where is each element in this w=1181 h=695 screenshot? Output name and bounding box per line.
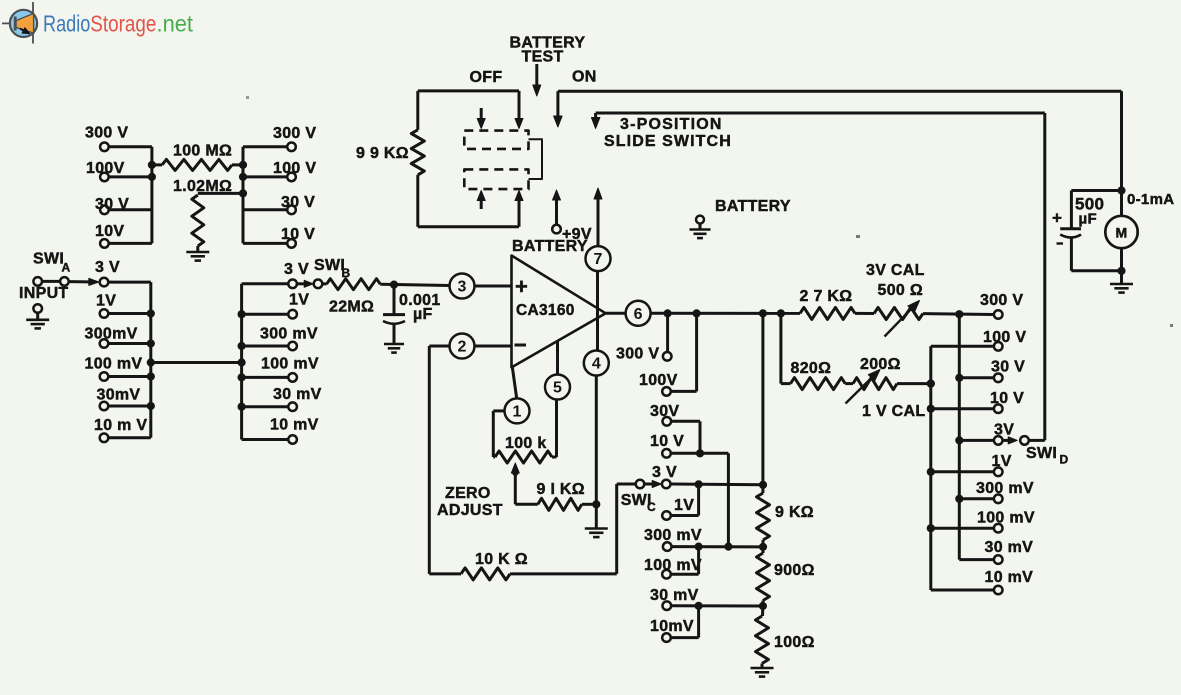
svg-text:10 mV: 10 mV (985, 569, 1034, 586)
svg-text:3V CAL: 3V CAL (866, 262, 925, 279)
svg-text:+: + (1052, 209, 1062, 228)
svg-text:100 mV: 100 mV (977, 510, 1035, 527)
svg-text:7: 7 (594, 251, 603, 268)
svg-text:TEST: TEST (522, 49, 564, 66)
svg-text:900Ω: 900Ω (774, 562, 815, 579)
svg-text:100V: 100V (86, 160, 125, 177)
svg-text:300 mV: 300 mV (260, 326, 318, 343)
svg-text:CA3160: CA3160 (516, 302, 575, 319)
svg-text:3 V: 3 V (95, 259, 120, 276)
svg-text:4: 4 (592, 356, 601, 373)
svg-text:100V: 100V (639, 372, 678, 389)
svg-text:ADJUST: ADJUST (437, 502, 503, 519)
svg-text:300 V: 300 V (85, 125, 128, 142)
svg-text:6: 6 (634, 306, 643, 323)
svg-text:9 I KΩ: 9 I KΩ (537, 481, 585, 498)
svg-text:300 mV: 300 mV (976, 480, 1034, 497)
svg-text:µF: µF (413, 306, 433, 323)
svg-text:1: 1 (513, 403, 522, 420)
svg-text:10mV: 10mV (650, 618, 694, 635)
svg-text:10 V: 10 V (990, 390, 1024, 407)
svg-text:0-1mA: 0-1mA (1127, 191, 1174, 208)
svg-text:30 mV: 30 mV (650, 587, 699, 604)
svg-text:30 mV: 30 mV (273, 386, 322, 403)
svg-text:300mV: 300mV (85, 326, 138, 343)
svg-text:1V: 1V (96, 293, 116, 310)
svg-text:1 V CAL: 1 V CAL (862, 403, 925, 420)
svg-text:100 V: 100 V (983, 329, 1026, 346)
svg-text:100 mV: 100 mV (261, 356, 319, 373)
svg-text:10 V: 10 V (281, 226, 315, 243)
svg-text:10 mV: 10 mV (270, 417, 319, 434)
svg-text:100 V: 100 V (273, 160, 316, 177)
svg-text:D: D (1060, 453, 1069, 467)
svg-text:100 mV: 100 mV (644, 557, 702, 574)
svg-text:2: 2 (458, 339, 467, 356)
svg-text:µF: µF (1079, 211, 1097, 228)
svg-text:SWI: SWI (314, 257, 345, 274)
svg-text:ZERO: ZERO (445, 485, 491, 502)
svg-text:INPUT: INPUT (19, 285, 69, 302)
svg-text:300 V: 300 V (616, 346, 659, 363)
svg-text:Radio: Radio (43, 11, 90, 37)
svg-text:300 mV: 300 mV (644, 527, 702, 544)
svg-text:+9V: +9V (562, 226, 592, 243)
svg-text:.net: .net (157, 11, 194, 37)
svg-text:OFF: OFF (470, 69, 503, 86)
svg-text:A: A (62, 261, 71, 275)
svg-text:ON: ON (572, 69, 597, 86)
svg-text:22MΩ: 22MΩ (329, 299, 374, 316)
svg-text:BATTERY: BATTERY (715, 198, 791, 215)
svg-text:30mV: 30mV (97, 387, 141, 404)
svg-text:10V: 10V (95, 223, 124, 240)
svg-text:30 V: 30 V (991, 359, 1025, 376)
svg-text:9 9 KΩ: 9 9 KΩ (356, 145, 409, 162)
svg-text:30 mV: 30 mV (985, 539, 1034, 556)
svg-text:5: 5 (553, 380, 562, 397)
svg-text:300 V: 300 V (273, 125, 316, 142)
svg-text:3 V: 3 V (652, 464, 677, 481)
svg-text:100 mV: 100 mV (85, 356, 143, 373)
svg-text:SLIDE SWITCH: SLIDE SWITCH (604, 133, 732, 150)
svg-text:30 V: 30 V (281, 194, 315, 211)
svg-text:SWI: SWI (33, 251, 64, 268)
svg-text:200Ω: 200Ω (860, 356, 901, 373)
svg-text:500 Ω: 500 Ω (878, 282, 923, 299)
svg-text:C: C (647, 500, 656, 514)
svg-text:Storage: Storage (90, 11, 156, 37)
svg-text:10 V: 10 V (650, 433, 684, 450)
svg-text:100 MΩ: 100 MΩ (173, 143, 232, 160)
svg-text:10 K Ω: 10 K Ω (475, 551, 528, 568)
svg-text:100 k: 100 k (505, 435, 547, 452)
svg-text:+: + (515, 274, 528, 299)
svg-text:3-POSITION: 3-POSITION (620, 116, 723, 133)
svg-text:SWI: SWI (1026, 445, 1057, 462)
svg-text:3 V: 3 V (284, 261, 309, 278)
svg-text:820Ω: 820Ω (791, 360, 832, 377)
svg-text:1V: 1V (289, 292, 309, 309)
svg-text:100Ω: 100Ω (774, 634, 815, 651)
svg-text:3V: 3V (994, 422, 1014, 439)
svg-text:1V: 1V (674, 497, 694, 514)
svg-text:9 KΩ: 9 KΩ (775, 504, 814, 521)
svg-text:M: M (1116, 225, 1128, 241)
svg-text:1V: 1V (992, 453, 1012, 470)
svg-text:2 7 KΩ: 2 7 KΩ (800, 288, 853, 305)
svg-text:300 V: 300 V (980, 292, 1023, 309)
svg-text:3: 3 (458, 279, 467, 296)
svg-text:30 V: 30 V (95, 196, 129, 213)
svg-text:10 m V: 10 m V (94, 417, 147, 434)
